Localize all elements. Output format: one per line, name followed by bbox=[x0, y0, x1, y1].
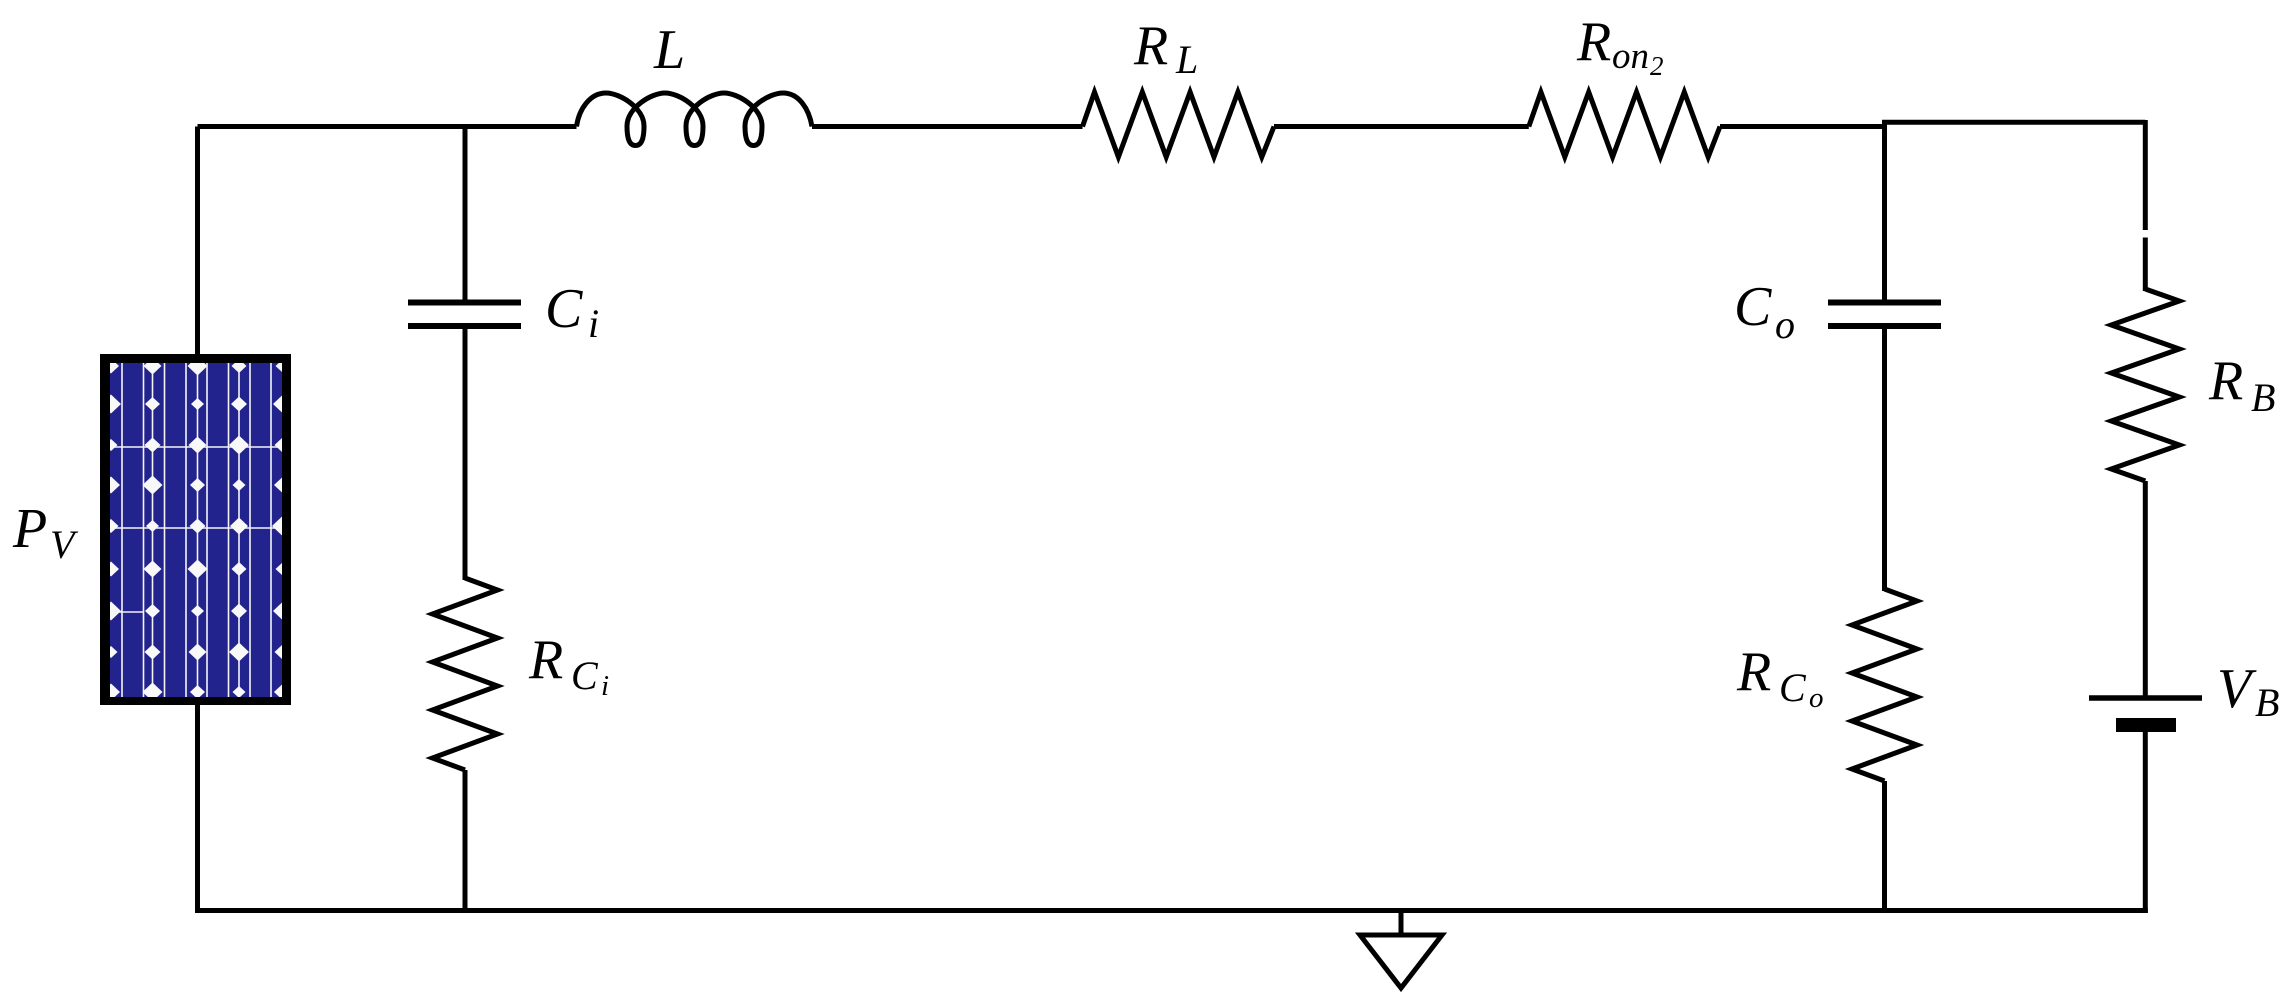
inductor L bbox=[577, 93, 813, 146]
svg-text:B: B bbox=[2251, 375, 2275, 420]
solar panel PV cell texture bbox=[110, 363, 282, 700]
wire battery to bottom-right corner bbox=[2143, 732, 2148, 913]
label Ron2 bbox=[1576, 11, 1664, 81]
capacitor Ci bbox=[408, 303, 521, 327]
resistor Ron2 bbox=[1529, 92, 1720, 157]
wire Co to RCo bbox=[1882, 329, 1887, 591]
wire PV bottom down to bottom-left corner bbox=[195, 703, 200, 911]
wire right vertical upper (with gap) bbox=[2143, 120, 2148, 291]
wire top-left from corner to inductor bbox=[198, 124, 577, 129]
wire RL to Ron2 bbox=[1274, 124, 1529, 129]
svg-text:2: 2 bbox=[1650, 51, 1664, 81]
svg-text:R: R bbox=[1736, 641, 1771, 703]
svg-text:C: C bbox=[1779, 665, 1807, 710]
svg-text:i: i bbox=[601, 670, 609, 702]
svg-text:C: C bbox=[545, 278, 583, 340]
label Ci bbox=[545, 278, 599, 346]
node Co junction vertical stub bbox=[1882, 122, 1887, 299]
svg-text:R: R bbox=[1133, 15, 1168, 77]
svg-text:P: P bbox=[12, 498, 47, 560]
battery VB bbox=[2089, 698, 2202, 732]
svg-text:V: V bbox=[50, 522, 79, 567]
svg-text:i: i bbox=[588, 301, 599, 346]
label RB bbox=[2208, 350, 2275, 420]
svg-text:on: on bbox=[1612, 36, 1649, 77]
wire RB to battery bbox=[2143, 481, 2148, 696]
svg-text:C: C bbox=[1734, 276, 1772, 338]
solar panel PV frame bbox=[100, 354, 291, 705]
wire RCo to bottom bbox=[1882, 781, 1887, 911]
svg-text:R: R bbox=[1576, 11, 1611, 73]
svg-text:L: L bbox=[653, 19, 685, 81]
svg-text:B: B bbox=[2255, 680, 2279, 725]
svg-text:C: C bbox=[571, 653, 599, 698]
svg-text:R: R bbox=[2208, 350, 2243, 412]
wire RCi to bottom bbox=[463, 770, 468, 911]
node Ci junction / wire down to Ci bbox=[463, 127, 468, 300]
wire Ron2 to Co junction bbox=[1720, 124, 1885, 129]
wire left vertical from top corner down to PV top bbox=[195, 127, 200, 357]
ground stub bbox=[1399, 911, 1404, 936]
label RCi bbox=[528, 629, 609, 702]
label RCo bbox=[1736, 641, 1824, 714]
svg-text:o: o bbox=[1809, 682, 1824, 714]
wire bottom horizontal bbox=[195, 908, 2148, 913]
svg-text:V: V bbox=[2217, 658, 2257, 720]
wire inductor to RL bbox=[812, 124, 1083, 129]
solar panel PV diamonds bbox=[101, 357, 292, 702]
resistor RL bbox=[1083, 92, 1275, 157]
svg-text:L: L bbox=[1175, 37, 1198, 82]
resistor RCi bbox=[433, 578, 498, 770]
ground symbol bbox=[1360, 935, 1442, 988]
wire Co junction to top-right corner bbox=[1882, 120, 2145, 125]
svg-text:o: o bbox=[1775, 302, 1795, 347]
svg-text:R: R bbox=[528, 629, 563, 691]
resistor RCo bbox=[1852, 589, 1917, 781]
label Co bbox=[1734, 276, 1795, 347]
resistor RB bbox=[2111, 289, 2179, 481]
label RL bbox=[1133, 15, 1198, 82]
label VB bbox=[2217, 658, 2279, 725]
capacitor Co bbox=[1828, 303, 1941, 327]
label PV bbox=[12, 498, 79, 567]
wire Ci to RCi bbox=[463, 329, 468, 580]
